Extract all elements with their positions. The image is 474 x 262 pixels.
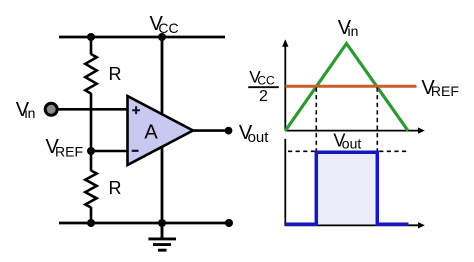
junction bottom rail / ground branch	[158, 219, 166, 227]
graph upper y-axis arrow	[282, 39, 288, 47]
wire top VCC rail	[59, 36, 225, 39]
svg-text:CC: CC	[257, 74, 275, 88]
waveform Vin triangle (green)	[285, 44, 408, 131]
svg-text:REF: REF	[55, 144, 83, 160]
graph upper x-axis	[285, 130, 419, 132]
dashed marker right crossing	[376, 88, 378, 152]
waveform Vout fill	[316, 152, 377, 224]
wire Vin to op-amp + input	[58, 108, 130, 111]
ground	[148, 223, 176, 250]
svg-text:out: out	[342, 135, 362, 151]
op-amp A body	[128, 96, 194, 165]
junction top rail / divider	[87, 33, 95, 41]
wire op-amp output	[193, 129, 228, 132]
graph upper x-axis arrow	[418, 127, 425, 133]
svg-text:R: R	[109, 64, 122, 84]
dashed marker left crossing	[315, 88, 317, 152]
node VREF junction	[87, 147, 95, 155]
wire divider lower lead	[90, 207, 93, 223]
svg-text:2: 2	[259, 88, 268, 105]
svg-text:CC: CC	[158, 20, 178, 36]
node bottom rail right end	[225, 219, 233, 227]
graph upper y-axis	[284, 43, 286, 131]
wire divider middle segment	[90, 93, 93, 171]
resistor R (upper)	[85, 54, 96, 94]
waveform Vout square (blue)	[285, 152, 408, 224]
svg-text:REF: REF	[431, 83, 459, 99]
junction top rail / VCC branch	[158, 33, 166, 41]
input terminal Vin	[45, 103, 57, 115]
op-amp + pin mark	[132, 106, 140, 114]
svg-text:in: in	[348, 23, 359, 39]
node Vout terminal dot	[225, 127, 233, 135]
wire VCC branch vertical (behind op-amp)	[161, 37, 164, 223]
graph lower y-axis	[284, 139, 286, 226]
svg-text:in: in	[25, 105, 36, 121]
graph lower x-axis	[285, 224, 419, 226]
svg-text:out: out	[248, 129, 270, 146]
resistor R (lower)	[85, 171, 96, 208]
dashed high-level line	[288, 150, 409, 152]
svg-text:A: A	[144, 122, 158, 144]
wire VREF to op-amp - input	[91, 150, 129, 153]
op-amp - pin mark	[132, 150, 139, 152]
level line VREF (orange)	[285, 85, 416, 88]
svg-text:R: R	[109, 178, 122, 198]
wire bottom rail	[59, 222, 229, 225]
graph lower x-axis arrow	[418, 222, 425, 228]
junction bottom rail / divider	[87, 219, 95, 227]
wire divider upper lead	[90, 37, 93, 55]
